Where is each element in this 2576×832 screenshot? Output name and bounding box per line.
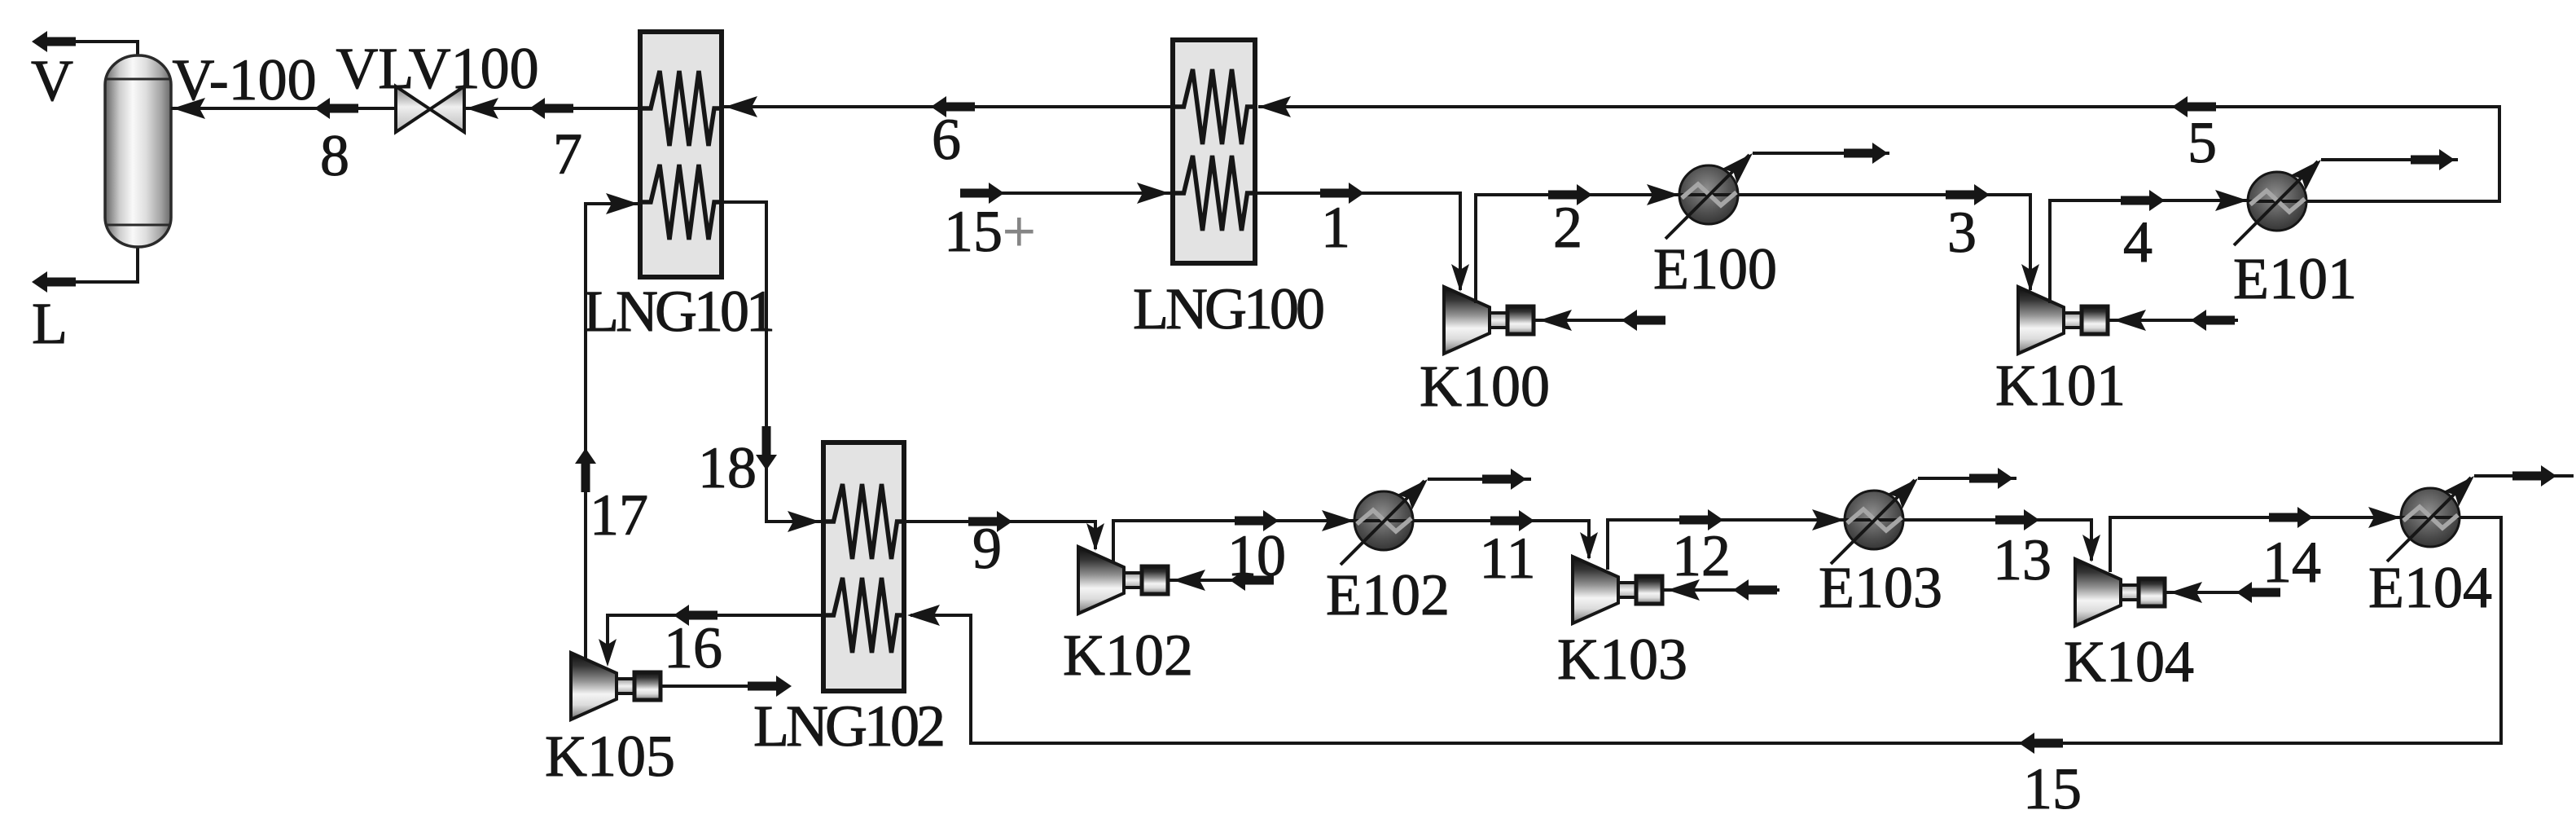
svg-text:7: 7	[553, 121, 582, 187]
K104 energy flow tag	[2236, 582, 2280, 603]
svg-text:16: 16	[664, 615, 722, 680]
svg-text:K100: K100	[1420, 354, 1550, 419]
stream 6 arrowhead into LNG101	[725, 96, 757, 117]
wire stream 3	[1738, 195, 2030, 290]
wire vessel bottom outlet (L product)	[45, 247, 138, 282]
K104 energy arrowhead	[2170, 582, 2202, 603]
stream 15 arrowhead into LNG102	[907, 605, 940, 626]
stream 17 flow tag	[575, 448, 596, 492]
svg-text:K104: K104	[2064, 629, 2194, 694]
K103 energy flow tag	[1733, 579, 1777, 601]
cooler E102 (circle with internal zigzag)	[1354, 491, 1414, 550]
svg-text:VLV100: VLV100	[336, 36, 538, 101]
E104 energy arrowhead	[2444, 469, 2482, 507]
svg-text:E102: E102	[1326, 562, 1450, 627]
wire stream 15+	[964, 191, 1173, 195]
wire vessel top outlet (V product)	[45, 42, 138, 55]
svg-text:K103: K103	[1557, 627, 1687, 692]
stream 15+ arrowhead into LNG100	[1137, 183, 1170, 204]
stream 15 flow tag	[2019, 733, 2063, 754]
svg-text:6: 6	[932, 107, 961, 172]
K101 energy flow tag	[2191, 310, 2235, 331]
wire stream 12	[1608, 520, 1845, 570]
LNG102 hot-side coil (top)	[823, 484, 905, 559]
E100 heat rejection arrow	[1844, 143, 1888, 164]
E103 energy arrowhead	[1888, 471, 1926, 509]
wire stream 16	[608, 615, 823, 657]
stream 2 flow tag	[1548, 184, 1592, 205]
E100 heat rejection line	[1753, 152, 1889, 155]
E104 energy stream diagonal	[2387, 478, 2471, 561]
wire stream 6	[722, 105, 1173, 108]
E100 energy stream diagonal	[1665, 155, 1749, 239]
svg-text:2: 2	[1553, 195, 1582, 260]
svg-text:1: 1	[1321, 195, 1350, 260]
wire stream 11	[1413, 521, 1589, 558]
stream 5 flow tag	[2172, 96, 2216, 117]
valve VLV100	[396, 86, 464, 132]
wire K100 energy stream	[1533, 319, 1665, 322]
compressor K101 body	[2018, 287, 2108, 354]
E101 heat rejection line	[2321, 158, 2458, 161]
stream 14 arrowhead into E104	[2368, 507, 2401, 528]
svg-text:9: 9	[972, 516, 1002, 581]
compressor K102 body	[1078, 547, 1168, 614]
stream 18 flow tag	[756, 426, 777, 470]
stream L terminal arrow	[32, 271, 76, 293]
svg-text:E103: E103	[1819, 555, 1942, 620]
wire stream 2	[1476, 195, 1679, 303]
LNG100 cold-side coil (bottom)	[1174, 156, 1255, 231]
svg-text:4: 4	[2123, 209, 2153, 275]
svg-text:LNG102: LNG102	[753, 693, 943, 759]
compressor K104 body	[2075, 559, 2165, 626]
stream 4 arrowhead into E101	[2215, 190, 2248, 211]
svg-text:3: 3	[1947, 200, 1977, 265]
compressor K103 body	[1573, 557, 1662, 623]
wire stream 9	[904, 522, 1095, 549]
svg-text:17: 17	[590, 482, 648, 548]
stream 12 arrowhead into E103	[1812, 509, 1845, 530]
heat exchanger LNG101	[640, 32, 722, 277]
svg-text:12: 12	[1672, 523, 1731, 588]
wire stream 13	[1903, 520, 2091, 561]
stream 8 arrowhead into vessel	[173, 98, 205, 119]
stream 12 flow tag	[1679, 509, 1723, 530]
E102 energy arrowhead	[1398, 472, 1436, 510]
wire stream 5 recycle loop	[1258, 107, 2499, 201]
svg-text:E104: E104	[2368, 555, 2492, 620]
stream 16 arrowhead into K105	[599, 639, 617, 667]
svg-text:14: 14	[2262, 530, 2321, 595]
stream 13 arrowhead into K104	[2082, 535, 2100, 562]
svg-text:13: 13	[1993, 527, 2052, 592]
svg-text:15+: 15+	[944, 199, 1036, 264]
wire stream 8	[171, 107, 396, 110]
stream 3 arrowhead into K101	[2021, 264, 2039, 292]
stream 11 flow tag	[1490, 510, 1534, 531]
svg-text:E100: E100	[1653, 236, 1777, 302]
svg-text:L: L	[32, 291, 68, 356]
heat exchanger LNG100	[1173, 40, 1255, 263]
stream 1 arrowhead into K100	[1451, 264, 1469, 292]
cooler E104 (circle with internal zigzag)	[2400, 488, 2460, 547]
K103 energy arrowhead	[1667, 579, 1700, 601]
stream 9 arrowhead into K102	[1086, 523, 1104, 551]
E101 heat rejection arrow	[2411, 149, 2455, 170]
K101 energy arrowhead	[2113, 310, 2146, 331]
E102 heat rejection arrow	[1482, 469, 1526, 490]
E101 energy arrowhead	[2291, 152, 2329, 191]
wire stream 18	[722, 202, 823, 522]
K102 energy flow tag	[1230, 570, 1274, 591]
stream 5 arrowhead into LNG100	[1258, 96, 1291, 117]
heat exchanger LNG102	[823, 442, 904, 691]
wire stream 10	[1113, 521, 1354, 562]
stream 7 flow tag	[529, 98, 573, 119]
E104 heat rejection arrow	[2512, 465, 2556, 486]
wire K103 energy stream	[1661, 588, 1780, 592]
compressor K105 body	[571, 653, 660, 720]
separator vessel V-100	[105, 55, 171, 247]
K100 energy flow tag	[1622, 310, 1665, 331]
cooler E103 (circle with internal zigzag)	[1844, 491, 1904, 549]
svg-text:8: 8	[320, 123, 349, 188]
svg-text:K101: K101	[1995, 353, 2126, 418]
svg-text:15: 15	[2023, 756, 2082, 821]
K102 energy arrowhead	[1173, 570, 1205, 591]
svg-text:K105: K105	[545, 724, 675, 789]
wire stream 4	[2050, 200, 2248, 303]
K105 energy flow tag	[748, 676, 792, 697]
stream 7 arrowhead into valve	[466, 98, 498, 119]
stream 9 flow tag	[968, 511, 1012, 532]
wire K105 energy stream	[659, 685, 780, 688]
E103 energy stream diagonal	[1831, 480, 1915, 564]
wire stream 1	[1255, 193, 1460, 290]
svg-text:10: 10	[1227, 523, 1286, 588]
wire stream 7	[464, 107, 640, 110]
stream 14 flow tag	[2269, 507, 2313, 528]
svg-text:LNG101: LNG101	[583, 279, 772, 344]
svg-text:LNG100: LNG100	[1133, 276, 1323, 341]
stream 17 arrowhead into LNG101	[606, 193, 639, 214]
E103 heat rejection arrow	[1969, 468, 2013, 489]
stream 15+ flow tag	[960, 183, 1004, 204]
E102 heat rejection line	[1428, 478, 1531, 481]
LNG100 hot-side coil (top)	[1174, 69, 1255, 144]
svg-text:K102: K102	[1063, 623, 1193, 688]
LNG102 cold-side coil (bottom)	[823, 578, 905, 653]
LNG101 cold-side coil (bottom)	[640, 165, 722, 240]
stream 3 flow tag	[1946, 184, 1990, 205]
svg-text:E101: E101	[2233, 246, 2357, 311]
svg-text:18: 18	[698, 435, 757, 500]
stream 10 arrowhead into E102	[1322, 510, 1354, 531]
wire stream 15 recycle loop	[911, 517, 2501, 743]
E104 heat rejection line	[2474, 474, 2574, 478]
svg-text:11: 11	[1479, 526, 1535, 591]
LNG101 hot-side coil (top)	[640, 71, 722, 146]
K100 energy arrowhead	[1539, 310, 1572, 331]
stream 11 arrowhead into K103	[1580, 532, 1598, 560]
E102 energy stream diagonal	[1341, 481, 1424, 565]
E103 heat rejection line	[1918, 477, 2016, 480]
wire stream 17	[586, 204, 640, 662]
stream 2 arrowhead into E100	[1647, 184, 1679, 205]
wire K101 energy stream	[2107, 319, 2238, 322]
wire stream 14	[2110, 517, 2401, 572]
stream 6 flow tag	[931, 96, 975, 117]
E100 energy arrowhead	[1722, 146, 1761, 184]
E101 energy stream diagonal	[2234, 161, 2318, 245]
stream 18 arrowhead into LNG102	[788, 511, 820, 532]
svg-text:V: V	[31, 48, 73, 113]
svg-text:5: 5	[2188, 110, 2217, 175]
stream V terminal arrow	[32, 31, 76, 52]
stream 10 flow tag	[1235, 510, 1279, 531]
stream 1 flow tag	[1320, 183, 1364, 204]
cooler E100 (circle with internal zigzag)	[1679, 165, 1739, 224]
cooler E101 (circle with internal zigzag)	[2247, 172, 2307, 231]
wire K102 energy stream	[1167, 579, 1272, 582]
stream 8 flow tag	[314, 98, 358, 119]
compressor K100 body	[1444, 287, 1534, 354]
stream 4 flow tag	[2121, 190, 2165, 211]
stream 16 flow tag	[674, 605, 718, 626]
wire K104 energy stream	[2164, 591, 2272, 594]
stream 13 flow tag	[1995, 509, 2039, 530]
